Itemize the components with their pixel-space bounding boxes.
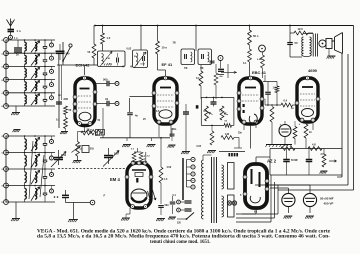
svg-text:0.1: 0.1 [196,76,200,80]
svg-text:50 n: 50 n [253,34,259,38]
svg-text:4.8: 4.8 [312,143,316,147]
svg-text:349: 349 [66,53,71,56]
svg-text:4n: 4n [135,115,138,118]
svg-text:da 5,8 a 13,5 Mc/s, e da: da 5,8 a 13,5 Mc/s, e da 16,5 a 20 Mc/s.… [37,235,330,240]
svg-text:EM 4: EM 4 [110,177,120,182]
svg-text:+: + [280,123,282,127]
svg-text:50n: 50n [165,204,170,207]
svg-text:ECH 42: ECH 42 [76,63,91,68]
svg-text:1 n: 1 n [17,29,21,33]
svg-text:50: 50 [295,41,298,45]
svg-text:44: 44 [105,97,108,101]
svg-text:4.50: 4.50 [61,153,67,157]
svg-text:4699: 4699 [308,68,318,73]
svg-text:140: 140 [225,133,230,136]
svg-text:500: 500 [103,78,108,82]
svg-text:10 n: 10 n [162,46,168,50]
svg-text:4.50: 4.50 [167,166,172,169]
svg-text:EBC 41: EBC 41 [252,70,267,75]
svg-text:30n: 30n [172,128,177,131]
svg-text:EF 41: EF 41 [162,62,173,67]
svg-text:12.0: 12.0 [298,27,304,31]
svg-text:50 MF: 50 MF [291,159,298,162]
svg-text:1 n: 1 n [14,37,18,40]
svg-text:50+50 MF: 50+50 MF [320,197,334,201]
svg-text:tenuti chiusi come mod. 16: tenuti chiusi come mod. 1651. [150,240,211,245]
svg-text:150: 150 [114,152,119,156]
svg-text:25n: 25n [238,133,243,135]
svg-text:0.02: 0.02 [127,48,132,51]
svg-text:0.5M: 0.5M [257,59,262,61]
svg-text:AZ 2: AZ 2 [267,159,277,164]
svg-text:33 n: 33 n [95,134,100,137]
svg-text:0.1: 0.1 [56,119,60,122]
svg-text:F: F [104,194,106,198]
svg-text:0.4: 0.4 [284,99,288,103]
svg-text:1.0: 1.0 [107,36,111,40]
svg-text:+: + [299,122,301,126]
svg-text:0.05: 0.05 [197,146,202,148]
svg-text:2.0: 2.0 [284,143,288,147]
svg-text:450 VP: 450 VP [324,202,334,206]
svg-text:200: 200 [64,97,69,101]
